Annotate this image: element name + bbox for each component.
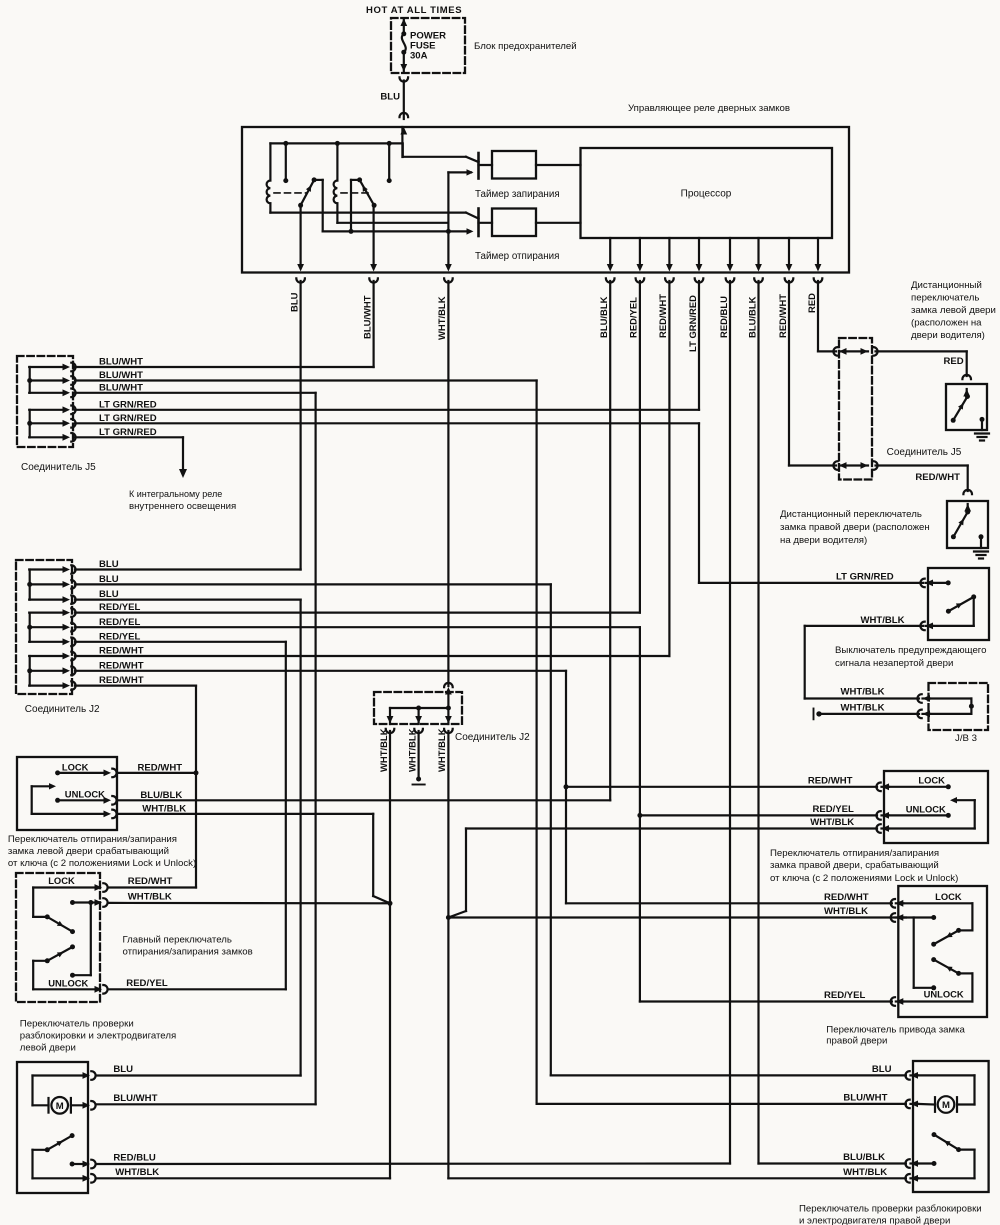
svg-text:BLU: BLU xyxy=(872,1064,892,1075)
lock timer box (Таймер запирания) xyxy=(479,164,493,166)
connector right key t1 xyxy=(876,783,880,792)
wire J5 link rows1-3 xyxy=(29,367,31,393)
svg-text:UNLOCK: UNLOCK xyxy=(65,789,105,800)
wire RED to connector xyxy=(818,350,836,352)
connectors at J2 middle exits xyxy=(387,716,394,724)
connector actuator t2 xyxy=(891,913,895,922)
svg-text:LT GRN/RED: LT GRN/RED xyxy=(99,427,157,438)
wire WHT/BLK exit2 stub xyxy=(418,731,420,777)
wire J5 row6 LT GRN/RED to interior light relay xyxy=(75,436,183,438)
wire WHT/BLK left motor xyxy=(97,1177,391,1179)
svg-text:(расположен на: (расположен на xyxy=(911,318,982,329)
processor box U1 (Процессор) xyxy=(581,148,833,238)
node bus junction 3 xyxy=(387,141,392,146)
wire LT GRN/RED relay to J5 row4 xyxy=(698,281,700,410)
ground for S1 xyxy=(975,432,989,434)
node bus junction 2 xyxy=(335,141,340,146)
svg-text:отпирания/запирания замков: отпирания/запирания замков xyxy=(123,947,253,958)
svg-text:LT GRN/RED: LT GRN/RED xyxy=(99,413,157,424)
svg-text:WHT/BLK: WHT/BLK xyxy=(437,728,448,772)
svg-text:Таймер запирания: Таймер запирания xyxy=(475,189,560,200)
svg-text:UNLOCK: UNLOCK xyxy=(906,803,946,814)
wire BLU/BLK relay down right xyxy=(757,281,759,1164)
wire processor output drops xyxy=(609,238,611,266)
wire coil K1 return to unlock timer input xyxy=(270,212,466,214)
svg-text:BLU: BLU xyxy=(99,574,119,585)
wire BLU/BLK to right motor xyxy=(759,1162,906,1164)
wire SW1 output BLU drop xyxy=(300,205,302,265)
svg-text:Таймер отпирания: Таймер отпирания xyxy=(475,251,559,262)
wire RED/WHT main switch xyxy=(109,886,196,888)
wire J2 row5 RED/YEL xyxy=(75,626,640,628)
svg-text:Управляющее реле дверных замко: Управляющее реле дверных замков xyxy=(628,103,790,114)
switch S4 left key lock-unlock xyxy=(55,770,60,775)
svg-text:BLU/BLK: BLU/BLK xyxy=(140,790,182,801)
remote lock switch right door box xyxy=(947,501,988,548)
switch S3 warning xyxy=(933,582,948,584)
wire J5 row4 LT GRN/RED xyxy=(75,409,699,411)
wire RED/WHT relay to J2 row7 xyxy=(668,281,670,656)
key lock switch right door box xyxy=(884,771,988,843)
svg-text:BLU: BLU xyxy=(289,292,300,312)
wire WHT/BLK relay to connector J2 xyxy=(447,281,449,686)
svg-text:BLU/WHT: BLU/WHT xyxy=(362,295,373,339)
svg-text:M: M xyxy=(56,1101,64,1112)
connector actuator t1 xyxy=(891,899,895,908)
connector J/B 3 dashed box xyxy=(929,683,989,730)
wire WHT/BLK to right motor xyxy=(448,1177,906,1179)
ground for S2 xyxy=(974,550,988,552)
wire SW2 contact to node line xyxy=(351,179,360,181)
svg-text:Переключатель привода замка: Переключатель привода замка xyxy=(826,1025,965,1036)
fuse F1 POWER FUSE 30A xyxy=(401,31,406,36)
wire BLU J2 row2 to right motor xyxy=(550,584,552,1075)
connector J5 terminals xyxy=(29,366,64,368)
wire BLU/BLK relay to key switch unlock xyxy=(609,281,611,800)
svg-text:переключатель: переключатель xyxy=(911,293,979,304)
right door lock motor box xyxy=(913,1061,989,1192)
svg-text:RED/WHT: RED/WHT xyxy=(99,675,144,686)
wire BLU to right motor xyxy=(551,1074,906,1076)
svg-text:RED/BLU: RED/BLU xyxy=(719,296,730,338)
wire WHT/BLK warning switch to J/B3 xyxy=(805,625,923,627)
wire RED/WHT J2 row8 down xyxy=(565,671,567,904)
switch S1 left door remote xyxy=(966,389,968,396)
svg-text:сигнала незапертой двери: сигнала незапертой двери xyxy=(835,658,953,669)
motor M1 left door xyxy=(33,1104,49,1106)
wire WHT/BLK output drop xyxy=(447,231,449,265)
wire left motor t1 BLU xyxy=(33,1074,86,1076)
svg-text:Блок предохранителей: Блок предохранителей xyxy=(474,41,577,52)
svg-text:RED/YEL: RED/YEL xyxy=(824,990,866,1001)
switch S7 right key lock-unlock xyxy=(889,786,948,788)
wire J5 row5 LT GRN/RED xyxy=(75,422,699,424)
wire J5 row2 BLU/WHT xyxy=(75,379,537,381)
svg-text:RED/WHT: RED/WHT xyxy=(778,294,789,338)
wire RED/BLU relay down xyxy=(729,281,731,1164)
relay switch SW2 xyxy=(372,203,377,208)
svg-text:К интегральному реле: К интегральному реле xyxy=(129,489,222,499)
door lock control relay box (Управляющее реле дверных замков) xyxy=(242,127,849,273)
wire BLU/BLK key switch to relay xyxy=(118,799,610,801)
svg-text:BLU/WHT: BLU/WHT xyxy=(113,1093,157,1104)
wire S8 common xyxy=(903,916,934,918)
svg-text:левой двери: левой двери xyxy=(20,1043,76,1054)
connector terminal pair 1 xyxy=(833,347,837,356)
svg-text:UNLOCK: UNLOCK xyxy=(48,978,88,989)
switch S8 right actuator unlock xyxy=(903,1000,972,1002)
svg-text:LT GRN/RED: LT GRN/RED xyxy=(688,295,699,352)
wire BLU/WHT relay to J5 row1 xyxy=(373,281,375,367)
svg-text:WHT/BLK: WHT/BLK xyxy=(841,703,885,714)
svg-text:WHT/BLK: WHT/BLK xyxy=(142,803,186,814)
svg-text:WHT/BLK: WHT/BLK xyxy=(843,1167,887,1178)
wire J2 row3 BLU xyxy=(75,598,301,600)
wire stub to relay K2 contact xyxy=(388,143,390,180)
wire BLU/WHT J5 row3 to left motor xyxy=(315,393,317,1105)
svg-text:WHT/BLK: WHT/BLK xyxy=(861,615,905,626)
wire fuse to box bottom xyxy=(403,52,405,71)
svg-text:RED/WHT: RED/WHT xyxy=(138,762,183,773)
svg-text:LT GRN/RED: LT GRN/RED xyxy=(99,399,157,410)
svg-text:J/B 3: J/B 3 xyxy=(955,733,977,744)
wire J2 middle internal bar xyxy=(447,694,449,708)
wire J2 row7 RED/WHT xyxy=(75,655,669,657)
wire BLU relay to J5 row1 xyxy=(300,281,302,570)
wire right motor t1 internal xyxy=(918,1074,975,1076)
wire LT GRN/RED J5 row5 to warning switch xyxy=(698,423,700,583)
svg-text:WHT/BLK: WHT/BLK xyxy=(128,892,172,903)
unlocked door warning switch box xyxy=(928,568,989,640)
connector terminal pair 2 xyxy=(833,461,837,470)
svg-text:Соединитель J2: Соединитель J2 xyxy=(455,732,530,743)
svg-text:LOCK: LOCK xyxy=(918,774,945,785)
wire Q1 base feed from node line xyxy=(447,172,449,231)
connector actuator t3 xyxy=(891,997,895,1006)
wire power feed into fuse xyxy=(403,19,405,34)
connector at J/B3 t1 xyxy=(917,694,921,703)
svg-text:Дистанционный переключатель: Дистанционный переключатель xyxy=(780,509,922,520)
svg-text:LOCK: LOCK xyxy=(62,761,89,772)
svg-text:WHT/BLK: WHT/BLK xyxy=(841,687,885,698)
svg-text:RED/WHT: RED/WHT xyxy=(808,775,853,786)
svg-text:RED/YEL: RED/YEL xyxy=(99,631,141,642)
svg-text:RED/WHT: RED/WHT xyxy=(658,294,669,338)
connector J2 terminals xyxy=(29,568,64,570)
wire BLU/WHT J5 row2 to right motor xyxy=(535,381,537,1104)
svg-text:RED/YEL: RED/YEL xyxy=(99,617,141,628)
svg-text:RED: RED xyxy=(807,293,818,313)
svg-text:BLU: BLU xyxy=(113,1064,133,1075)
switch S6 left motor position xyxy=(70,1133,75,1138)
svg-text:UNLOCK: UNLOCK xyxy=(924,989,964,1000)
wire BLU fuse to relay xyxy=(403,81,405,120)
connector right key t3 xyxy=(876,824,880,833)
svg-text:BLU/WHT: BLU/WHT xyxy=(99,382,143,393)
svg-text:RED/WHT: RED/WHT xyxy=(824,892,869,903)
svg-text:RED/WHT: RED/WHT xyxy=(99,646,144,657)
wire RED/WHT key switch to junction xyxy=(118,772,196,774)
wire RED relay to connector xyxy=(817,281,819,351)
connector at relay box top xyxy=(400,113,409,117)
connector at left door switch top xyxy=(962,375,971,379)
wire WHT/BLK key switch xyxy=(118,813,373,815)
svg-text:замка правой двери, срабатываю: замка правой двери, срабатывающий xyxy=(770,860,939,871)
wire WHT/BLK to right key switch xyxy=(466,827,877,829)
connector at warning switch t2 xyxy=(920,622,924,631)
node bus junction 1 xyxy=(283,141,288,146)
svg-text:RED/YEL: RED/YEL xyxy=(126,978,168,989)
svg-text:WHT/BLK: WHT/BLK xyxy=(115,1167,159,1178)
svg-text:WHT/BLK: WHT/BLK xyxy=(437,296,448,340)
wire unlock timer to processor xyxy=(536,222,581,224)
svg-text:BLU/BLK: BLU/BLK xyxy=(843,1152,885,1163)
wire RED/YEL relay to J2 row4 xyxy=(639,281,641,613)
svg-text:правой двери: правой двери xyxy=(826,1036,887,1047)
relay switch SW1 xyxy=(298,203,303,208)
wire J2 link rows4-6 xyxy=(29,613,31,642)
svg-text:HOT AT ALL TIMES: HOT AT ALL TIMES xyxy=(366,5,462,16)
svg-text:BLU/BLK: BLU/BLK xyxy=(747,296,758,338)
connector J2 middle dashed box xyxy=(374,692,462,724)
unlock timer box (Таймер отпирания) xyxy=(479,222,493,224)
wire RED/WHT to right key switch xyxy=(566,786,877,788)
wire BLU/WHT left motor xyxy=(97,1103,316,1105)
wire RED/WHT J2 row9 to main switch xyxy=(195,686,197,888)
wire RED/WHT to connector pair 2 xyxy=(789,464,836,466)
wire BLU J2 row3 to left motor xyxy=(300,600,302,1076)
svg-text:RED/YEL: RED/YEL xyxy=(99,602,141,613)
connector J2 dashed box (Соединитель J2) xyxy=(16,560,72,694)
svg-text:LT GRN/RED: LT GRN/RED xyxy=(836,572,894,583)
svg-text:BLU/WHT: BLU/WHT xyxy=(99,370,143,381)
svg-text:M: M xyxy=(942,1100,950,1111)
svg-text:RED/WHT: RED/WHT xyxy=(915,472,960,483)
remote lock switch left door box xyxy=(946,384,987,430)
wire J2 row6 RED/YEL xyxy=(75,641,286,643)
svg-text:на двери водителя): на двери водителя) xyxy=(780,535,867,546)
connector right motor t3 xyxy=(905,1159,909,1168)
svg-text:двери водителя): двери водителя) xyxy=(911,330,985,341)
svg-text:Главный переключатель: Главный переключатель xyxy=(123,935,232,946)
wire J2 row8 RED/WHT xyxy=(75,670,566,672)
svg-text:LOCK: LOCK xyxy=(48,875,75,886)
svg-text:RED: RED xyxy=(944,356,964,367)
svg-text:BLU: BLU xyxy=(380,92,400,103)
svg-text:замка левой двери: замка левой двери xyxy=(911,305,996,316)
switch S5 main unlock contact xyxy=(45,958,50,963)
connector at J2 middle entry xyxy=(444,683,453,687)
wire stub to relay K1 contact xyxy=(285,143,287,180)
wire RED/YEL to right key switch xyxy=(640,814,877,816)
wire J/B3 internal link xyxy=(930,697,971,699)
wire coil K2 return xyxy=(337,222,448,224)
wire WHT/BLK exit1 down to junction xyxy=(389,731,391,1178)
wire internal supply bus xyxy=(270,142,402,144)
wire J2 row9 RED/WHT xyxy=(75,684,196,686)
svg-text:BLU: BLU xyxy=(99,589,119,600)
wire RED/WHT to right actuator xyxy=(566,902,892,904)
connector at right door switch top xyxy=(963,490,972,494)
wire J5 row3 BLU/WHT xyxy=(75,392,316,394)
connector at fuse box bottom xyxy=(400,77,409,81)
wire WHT/BLK to right actuator xyxy=(448,916,906,918)
wire J2 row1 BLU xyxy=(75,568,301,570)
wire J5 row1 BLU/WHT xyxy=(75,366,374,368)
wire WHT/BLK exit3 down xyxy=(447,731,449,1178)
svg-text:Соединитель J5: Соединитель J5 xyxy=(887,447,962,458)
wire RED/WHT connector to right door switch xyxy=(876,464,968,466)
left door lock motor box xyxy=(17,1062,88,1193)
wire RED/YEL to right actuator xyxy=(640,1000,892,1002)
wire SW1 contact to node line xyxy=(314,179,323,181)
svg-text:BLU/WHT: BLU/WHT xyxy=(99,357,143,368)
svg-text:Переключатель проверки разблок: Переключатель проверки разблокировки xyxy=(799,1204,982,1215)
wire J2 link rows1-3 xyxy=(29,570,31,600)
svg-text:Переключатель проверки: Переключатель проверки xyxy=(20,1019,134,1030)
connector J5 dashed box (Соединитель J5) xyxy=(17,356,73,447)
wire RED/YEL main switch xyxy=(109,988,286,990)
transistor Q1 (lock driver) xyxy=(477,153,480,179)
fuse block dashed box (Блок предохранителей) xyxy=(391,18,465,73)
svg-text:Выключатель предупреждающего: Выключатель предупреждающего xyxy=(835,645,986,656)
mechanical link K2 (dashed) xyxy=(341,192,371,194)
svg-text:разблокировки и электродвигате: разблокировки и электродвигателя xyxy=(20,1031,176,1042)
wire J2 row4 RED/YEL xyxy=(75,611,640,613)
main lock/unlock switch dashed box (Главный переключатель) xyxy=(16,873,100,1002)
svg-text:BLU/WHT: BLU/WHT xyxy=(843,1092,887,1103)
switch S8 right actuator lock xyxy=(903,902,972,904)
relay coil K1 xyxy=(269,143,271,180)
svg-text:Соединитель J2: Соединитель J2 xyxy=(25,704,100,715)
svg-text:Процессор: Процессор xyxy=(681,189,732,200)
connector at warning switch t1 xyxy=(920,579,924,588)
wire BLU/WHT to right motor xyxy=(537,1103,906,1105)
wire J2 link rows7-9 xyxy=(29,656,31,686)
wire RED/WHT relay to connector xyxy=(788,281,790,466)
relay coil K2 xyxy=(336,143,338,180)
svg-text:LOCK: LOCK xyxy=(935,891,962,902)
wire LT GRN/RED to warning switch xyxy=(699,582,923,584)
svg-text:RED/WHT: RED/WHT xyxy=(128,876,173,887)
motor M2 right door xyxy=(956,1097,958,1112)
wire S5 common contacts xyxy=(70,900,75,905)
connector pair dashed box right xyxy=(839,338,872,480)
svg-text:от ключа (с 2 положениями Lock: от ключа (с 2 положениями Lock и Unlock) xyxy=(8,858,196,869)
wire lock timer to processor xyxy=(536,164,581,166)
wire RED/BLU left motor to relay xyxy=(97,1162,731,1165)
svg-text:30A: 30A xyxy=(410,51,428,62)
connectors at relay box bottom edge xyxy=(296,278,305,282)
svg-text:замка левой двери срабатывающи: замка левой двери срабатывающий xyxy=(8,846,169,857)
door lock actuator switch right box xyxy=(898,886,987,1017)
switch S5 main lock contact xyxy=(33,886,97,888)
svg-text:RED/YEL: RED/YEL xyxy=(813,804,855,815)
svg-text:RED/YEL: RED/YEL xyxy=(629,297,640,338)
key lock switch left door box xyxy=(17,757,117,830)
svg-text:WHT/BLK: WHT/BLK xyxy=(407,728,418,772)
connector at J/B3 t2 xyxy=(917,710,921,719)
svg-text:Дистанционный: Дистанционный xyxy=(911,280,982,291)
svg-text:Переключатель отпирания/запира: Переключатель отпирания/запирания xyxy=(770,848,939,859)
wire SW2 output BLU/WHT drop xyxy=(373,205,375,265)
wire WHT/BLK stub to J/B3 xyxy=(822,713,919,715)
wire RED/YEL J2 row6 to main switch xyxy=(285,642,287,990)
connector right motor t1 xyxy=(905,1071,909,1080)
svg-text:WHT/BLK: WHT/BLK xyxy=(824,906,868,917)
wire RED connector to left door switch xyxy=(876,350,967,352)
svg-text:WHT/BLK: WHT/BLK xyxy=(379,728,390,772)
svg-text:BLU/BLK: BLU/BLK xyxy=(599,296,610,338)
svg-text:замка правой двери (расположен: замка правой двери (расположен xyxy=(780,522,930,533)
mechanical link K1 (dashed) xyxy=(274,192,307,194)
svg-text:RED/WHT: RED/WHT xyxy=(99,660,144,671)
wire RED/YEL J2 row5 down xyxy=(639,627,641,1001)
wire WHT/BLK main switch xyxy=(109,902,390,905)
svg-text:внутреннего освещения: внутреннего освещения xyxy=(129,501,236,512)
svg-text:RED/BLU: RED/BLU xyxy=(113,1153,156,1164)
svg-text:WHT/BLK: WHT/BLK xyxy=(810,817,854,828)
svg-text:и электродвигателя правой две: и электродвигателя правой двери xyxy=(799,1216,950,1225)
connector right motor t4 xyxy=(905,1174,909,1183)
connector right motor t2 xyxy=(905,1100,909,1109)
svg-text:Переключатель отпирания/запира: Переключатель отпирания/запирания xyxy=(8,834,177,845)
svg-text:от ключа (с 2 положениями Lock: от ключа (с 2 положениями Lock и Unlock) xyxy=(770,873,958,884)
svg-text:BLU: BLU xyxy=(99,559,119,570)
wire contact node line xyxy=(323,230,470,232)
wire J5 link rows4-6 xyxy=(29,410,31,438)
wire J2 row2 BLU xyxy=(75,583,551,585)
connector right key t2 xyxy=(876,811,880,820)
transistor Q2 (unlock driver) xyxy=(477,209,480,237)
wire BLU left motor xyxy=(97,1074,301,1076)
switch S2 right door remote xyxy=(967,504,969,512)
switch S9 right motor position xyxy=(932,1132,937,1137)
svg-text:Соединитель J5: Соединитель J5 xyxy=(21,462,96,473)
